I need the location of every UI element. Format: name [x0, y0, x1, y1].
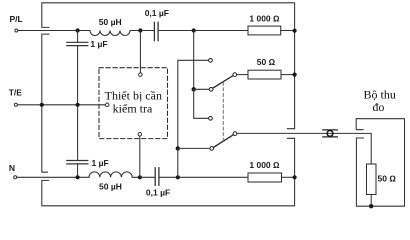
EUT box (dashed): Thiet bi can kiem tra — [99, 68, 168, 139]
junction dot R4 to receiver case — [369, 204, 373, 208]
wire: inductor to 0,1 µF cap — [130, 30, 154, 32]
capacitor C4 1 µF (N to earth bus) plates — [67, 161, 88, 164]
lower switch arm (on N contact) — [214, 135, 234, 148]
svg-text:T/E: T/E — [9, 88, 23, 98]
wire: EUT N terminal down to N line — [139, 136, 141, 177]
wire: resistor R1 to case wall — [281, 30, 295, 32]
resistor R3 50 ohm (termination) — [248, 70, 281, 79]
wire: P/L tap down to EUT terminal — [139, 31, 141, 73]
switch bus from P/L tap — [193, 31, 195, 90]
terminal T/E — [14, 103, 17, 106]
junction dot node: N / switch link — [176, 175, 180, 179]
junction dot bracket / lower contact wire — [176, 146, 180, 150]
svg-text:N: N — [9, 163, 15, 173]
lower switch pivot — [233, 132, 237, 136]
svg-text:50 Ω: 50 Ω — [257, 57, 276, 67]
EUT terminal E (circle) — [105, 103, 109, 107]
wire: bus down to contact C — [194, 89, 209, 118]
svg-text:1 µF: 1 µF — [90, 39, 107, 49]
wire: pivot to 50 ohm resistor — [237, 74, 248, 76]
terminal P/L — [15, 29, 18, 32]
wire: cap to 1000 ohm resistor — [159, 30, 248, 32]
inductor L1 50 µH (P/L line) — [90, 31, 130, 36]
wire: R3 to case wall — [281, 74, 295, 76]
svg-text:50 Ω: 50 Ω — [378, 174, 397, 184]
wire T/E earth line to EUT — [18, 104, 106, 106]
junction dot R2 to case — [293, 175, 297, 179]
junction dot node: N / 1 µF bus — [76, 175, 80, 179]
wire: lower pivot to measuring receiver (coax line) — [237, 133, 371, 164]
inductor L2 50 µH (N line) — [89, 172, 132, 177]
receiver case box (shield with feedthrough gap) — [356, 119, 404, 207]
EUT terminal P (circle) — [139, 73, 143, 77]
switch contact C (P/L) — [209, 116, 213, 120]
junction dot T/E to earth bus — [76, 103, 80, 107]
wire: bracket down to N line — [177, 148, 179, 177]
wire earth bus: T/E line to cap C4 — [77, 105, 79, 161]
capacitor C5 0,1 µF (N measuring tap) — [155, 168, 159, 186]
wire earth bus: cap C1 to T/E line — [77, 46, 79, 105]
wire: cap C5 to resistor R2 — [160, 176, 248, 178]
svg-text:Thiết bị cần: Thiết bị cần — [105, 89, 162, 103]
svg-text:P/L: P/L — [10, 14, 23, 24]
terminal N — [14, 176, 17, 179]
wire: to lower switch contact — [178, 147, 210, 149]
junction dot T/E to case wall — [40, 103, 44, 107]
capacitor C2 0,1 µF (P/L measuring tap) — [154, 22, 158, 40]
wire: resistor R2 to case wall — [282, 176, 295, 178]
wire: contact A left bracket — [178, 60, 209, 148]
svg-text:0,1 µF: 0,1 µF — [146, 188, 170, 198]
junction dot node: P/L / EUT tap — [138, 28, 142, 32]
svg-text:đo: đo — [372, 100, 384, 114]
switch contact A (to N link) — [209, 58, 213, 62]
wire earth bus lower: cap C4 to N line — [77, 164, 79, 177]
wire earth bus upper: P/L junction to cap C1 — [77, 31, 79, 43]
wire P/L line: terminal to inductor — [18, 30, 90, 32]
wire: bus to contact B — [194, 88, 209, 90]
upper switch pivot — [233, 73, 237, 77]
EUT terminal N (circle) — [138, 133, 142, 137]
resistor R4 50 ohm (receiver input) — [367, 164, 377, 195]
junction dot node: P/L / switch bus — [192, 28, 196, 32]
svg-text:0,1 µF: 0,1 µF — [145, 8, 169, 18]
ganged switch link (dashed) — [222, 82, 224, 140]
svg-text:1 µF: 1 µF — [92, 158, 109, 168]
junction dot switch bus / contact B — [192, 87, 196, 91]
capacitor C1 1 µF (P/L to earth bus) plates — [67, 42, 88, 45]
junction dot node: N / EUT tap — [138, 175, 142, 179]
svg-text:1 000 Ω: 1 000 Ω — [249, 13, 280, 23]
lower switch contact (N) — [210, 147, 214, 151]
junction dot node: P/L / 1 µF bus — [76, 28, 80, 32]
svg-text:50 µH: 50 µH — [99, 182, 122, 192]
resistor R2 1000 ohm (N) — [248, 173, 282, 182]
svg-text:50 µH: 50 µH — [99, 17, 122, 27]
svg-text:kiểm tra: kiểm tra — [113, 102, 153, 116]
svg-text:1 000 Ω: 1 000 Ω — [249, 160, 280, 170]
coaxial connector circle — [327, 131, 333, 137]
wire: inductor L2 to EUT tap — [132, 176, 154, 178]
LISN case enclosure (shield box with feedthrough gaps) — [42, 3, 295, 206]
wire N line: terminal to inductor — [17, 176, 89, 178]
switch contact B (P/L) — [209, 87, 213, 91]
junction dot R3 to case — [293, 73, 297, 77]
coaxial connector ticks — [323, 130, 338, 137]
wire: R4 to receiver case bottom — [370, 195, 372, 207]
upper switch arm (on P/L contact) — [213, 76, 233, 89]
resistor R1 1000 ohm (P/L) — [248, 26, 281, 35]
junction dot R1 to case — [293, 29, 297, 33]
